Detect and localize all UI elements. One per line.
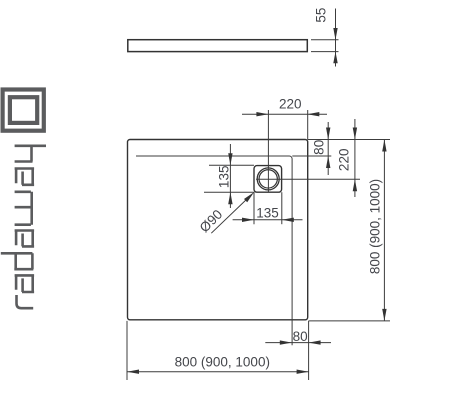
arrow 80r top xyxy=(326,128,330,140)
svg-text:220: 220 xyxy=(337,149,352,172)
arrow 800b right xyxy=(297,370,309,374)
drain vertical centerline xyxy=(267,110,269,192)
drain horizontal centerline xyxy=(256,178,360,180)
ext line 135h left xyxy=(253,192,255,224)
dim line 135 horizontal xyxy=(233,219,303,221)
arrow 80b right xyxy=(309,340,321,344)
top edge up extension xyxy=(307,110,309,140)
leader arrow d90 xyxy=(244,192,254,202)
dim line 80 bottom xyxy=(265,342,331,344)
svg-text:80: 80 xyxy=(293,329,308,344)
arrow 135h right xyxy=(282,218,294,222)
arrow 135v top xyxy=(228,153,232,165)
ext line 135v bottom xyxy=(204,191,255,193)
arrow 220r bottom xyxy=(353,179,357,191)
arrow 800r bottom xyxy=(382,309,386,321)
arrow 135h left xyxy=(242,218,254,222)
drain inner circle xyxy=(259,170,277,188)
logo square outer xyxy=(3,90,44,131)
arrow 80b left xyxy=(280,340,292,344)
leader line d90 xyxy=(211,195,251,233)
svg-text:135: 135 xyxy=(216,166,231,189)
plan rim line xyxy=(136,156,292,345)
arrow 220r top xyxy=(353,128,357,140)
logo letter a1 xyxy=(15,169,34,185)
plan view outer square xyxy=(128,140,308,320)
ext line 135h right xyxy=(281,192,283,224)
logo letter a3 xyxy=(15,275,34,292)
ext line 135v top xyxy=(209,164,254,166)
svg-text:55: 55 xyxy=(314,8,329,23)
right edge bottom extension xyxy=(308,321,310,380)
ext line 55 top xyxy=(311,39,339,41)
logo square inner xyxy=(10,97,37,123)
top edge right extension xyxy=(308,139,390,141)
dim line 55 xyxy=(335,9,337,67)
svg-text:135: 135 xyxy=(256,206,279,221)
logo letter w xyxy=(15,192,32,225)
logo letter a2 xyxy=(15,231,34,247)
drain outer circle xyxy=(257,168,279,190)
bottom right corner extension xyxy=(309,320,391,322)
ext line 55 bottom xyxy=(311,51,339,53)
dim line 220 right xyxy=(354,119,356,197)
arrow 800b left xyxy=(127,370,139,374)
logo letter d xyxy=(1,253,34,269)
logo letter r xyxy=(17,295,34,308)
dim line 800 bottom xyxy=(127,371,309,373)
dim line 80 right xyxy=(327,122,329,175)
dim line 135 vertical xyxy=(229,144,231,208)
arrow 135v bottom xyxy=(228,192,232,204)
arrow 80r bottom xyxy=(326,156,330,168)
svg-text:800 (900, 1000): 800 (900, 1000) xyxy=(175,355,270,370)
svg-text:800 (900, 1000): 800 (900, 1000) xyxy=(368,179,383,274)
svg-text:220: 220 xyxy=(279,97,302,112)
arrow 800r top xyxy=(382,140,386,152)
arrow 220 left xyxy=(256,112,268,116)
logo letter y xyxy=(15,146,46,162)
side view tray profile xyxy=(128,40,307,52)
arrow 55 bottom xyxy=(333,52,337,64)
bottom-left extension xyxy=(126,321,128,380)
svg-text:80: 80 xyxy=(312,140,327,155)
rim right extension xyxy=(292,155,331,157)
dim line 220 top xyxy=(242,113,327,115)
arrow 220 right xyxy=(307,112,319,116)
drain square xyxy=(254,166,282,193)
dim line 800 right xyxy=(383,140,385,321)
arrow 55 top xyxy=(333,28,337,40)
